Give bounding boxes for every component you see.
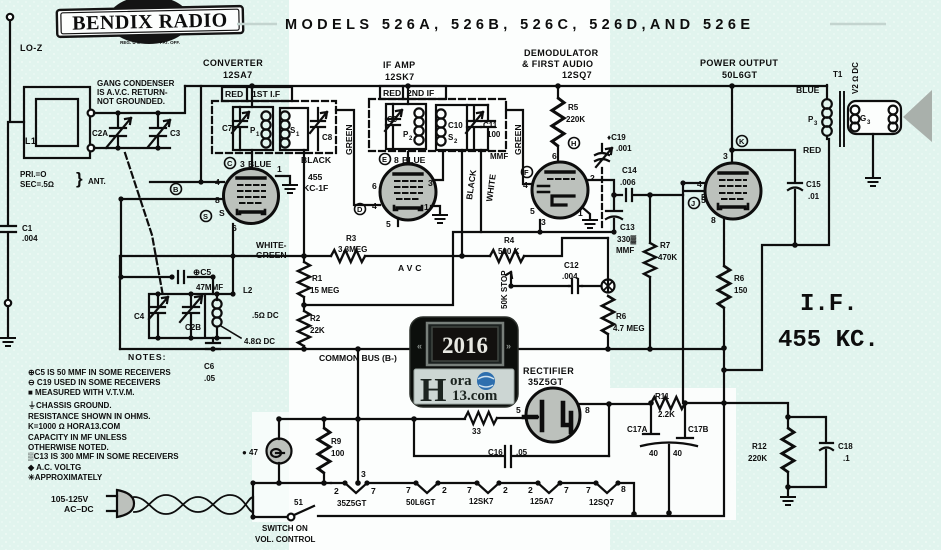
svg-text:C10: C10 [448,121,463,130]
svg-text:ora: ora [450,373,472,389]
svg-text:12SA7: 12SA7 [223,70,253,80]
capacitor C7 variable [232,107,249,150]
wire: S1 top to GREEN lead of 12SK7 [336,110,380,205]
svg-text:220K: 220K [748,454,767,463]
capacitor C17 common plate [641,443,697,514]
ground: C1 [7,306,9,336]
svg-text:RECTIFIER: RECTIFIER [523,366,574,376]
wire: 2nd IF primary feed [407,86,409,104]
svg-text:2.2K: 2.2K [658,410,675,419]
svg-text:C16: C16 [488,448,503,457]
transformer 2nd IF primary box [386,104,426,149]
node: circled B [171,184,182,195]
resistor R4 potentiometer [490,250,604,286]
plug AC [107,490,134,517]
svg-text:12SK7: 12SK7 [385,72,415,82]
wire: cord to switch [253,497,287,517]
svg-text:470K: 470K [658,253,677,262]
svg-text:4.7 MEG: 4.7 MEG [613,324,645,333]
wire: pilot leads [278,419,280,483]
svg-text:C9: C9 [387,115,398,124]
svg-text:C2A: C2A [92,129,108,138]
svg-text:RED: RED [803,145,821,155]
svg-text:R9: R9 [331,437,342,446]
svg-text:5: 5 [530,206,535,216]
resistor R1 [298,256,310,305]
node: circled D [355,204,366,215]
svg-text:50K STOP: 50K STOP [500,270,509,309]
resistor 33 [465,412,526,424]
heater link 3 [499,483,560,493]
svg-text:B: B [173,185,179,194]
svg-text:6: 6 [372,181,377,191]
svg-text:R7: R7 [660,241,671,250]
svg-text:7: 7 [371,486,376,496]
wire: heater supply line [279,418,465,420]
svg-text:1: 1 [424,202,429,212]
svg-text:500 K: 500 K [498,247,520,256]
inductor S2 [436,109,445,145]
resistor R9 [318,419,330,483]
wire: T1 RED staircase [724,139,829,370]
inductor G3 voice coil left [851,106,860,132]
node: circled J [689,198,700,209]
svg-text:3: 3 [723,151,728,161]
svg-text:AC–DC: AC–DC [64,504,94,514]
svg-text:15 MEG: 15 MEG [310,286,339,295]
inductor S1 [280,111,289,147]
svg-text:K=1000 Ω HORA13.COM: K=1000 Ω HORA13.COM [28,422,121,431]
capacitor C17A [643,403,659,434]
capacitor C5 [178,271,213,283]
capacitor C11 [481,105,495,150]
heater link 4 [560,483,618,493]
svg-text:35Z5GT: 35Z5GT [337,499,366,508]
svg-text:LO-Z: LO-Z [20,43,43,53]
svg-text:H: H [571,139,576,148]
node: circled S [201,211,212,222]
svg-text:T1: T1 [833,70,843,79]
svg-text:22K: 22K [310,326,325,335]
wire: left band down [119,256,121,349]
svg-text:105-125V: 105-125V [51,494,89,504]
wire: 1st IF primary feed [251,86,253,107]
svg-text:C17A: C17A [627,425,648,434]
svg-text:J: J [691,199,695,208]
transformer 1st IF primary box [233,107,273,150]
svg-text:455 KC.: 455 KC. [778,327,879,354]
svg-text:POWER OUTPUT: POWER OUTPUT [700,58,778,68]
wire: B+ line to R11 [685,402,724,404]
resistor R6 150 [718,266,730,308]
svg-text:◆ A.C. VOLTG: ◆ A.C. VOLTG [27,463,81,472]
inductor L2 [212,294,241,338]
svg-text:2: 2 [590,173,595,183]
svg-text:50L6GT: 50L6GT [406,498,435,507]
svg-text:C18: C18 [838,442,853,451]
svg-text:.004: .004 [22,234,38,243]
svg-text:2ND IF: 2ND IF [407,88,434,98]
capacitor C12 [569,279,582,293]
svg-text:MODELS 526A, 526B, 526C, 526D,: MODELS 526A, 526B, 526C, 526D,AND 526E [285,17,754,33]
node: circled F [522,167,533,178]
wire: common bus B- [120,348,724,350]
svg-text:BLACK: BLACK [301,155,332,165]
svg-text:5: 5 [386,219,391,229]
wire: bottom rail [318,403,724,516]
inductor P1 [261,111,270,147]
svg-text:6: 6 [232,223,237,233]
node: C1 terminal [5,300,11,306]
capacitor C4 variable [149,294,168,338]
svg-text:KC-1F: KC-1F [303,183,328,193]
svg-text:7: 7 [564,485,569,495]
svg-text:✳APPROXIMATELY: ✳APPROXIMATELY [28,473,103,482]
svg-text:C3: C3 [170,129,181,138]
svg-text:13.com: 13.com [452,388,498,404]
svg-text:.1: .1 [843,454,850,463]
resistor R12 [782,417,794,487]
svg-text:⊕C5 IS 50 MMF IN SOME RECEIVER: ⊕C5 IS 50 MMF IN SOME RECEIVERS [28,368,171,377]
svg-text:R3: R3 [346,234,357,243]
svg-text:SWITCH ON: SWITCH ON [262,524,308,533]
node: loop terminal lower [88,145,95,152]
svg-text:BLUE: BLUE [796,85,820,95]
svg-text:47MMF: 47MMF [196,283,223,292]
svg-text:K: K [739,137,745,146]
svg-text:125A7: 125A7 [530,497,554,506]
svg-text:4.8Ω DC: 4.8Ω DC [244,337,275,346]
tube 12SQ7 demodulator [532,162,588,218]
ground: R12 [787,487,789,496]
svg-text:R2: R2 [310,314,321,323]
svg-text:G: G [860,114,866,123]
svg-text:NOT GROUNDED.: NOT GROUNDED. [97,97,165,106]
svg-text:H: H [420,372,446,409]
wire: heater end drop [618,483,634,514]
svg-text:GREEN: GREEN [344,124,354,155]
svg-text:.001: .001 [616,144,632,153]
svg-text:C8: C8 [322,133,333,142]
capacitor C9 variable [385,104,402,149]
inductor P3 [822,99,832,139]
wire: 12SK7 pin5 stub [397,218,399,226]
svg-text:NOTES:: NOTES: [128,352,166,362]
transformer 2nd IF secondary box [436,105,467,150]
svg-text:ANT.: ANT. [88,177,106,186]
svg-text:D: D [357,205,363,214]
svg-text:7: 7 [467,485,472,495]
svg-text:5: 5 [701,192,706,202]
wire: line cord twisted pair [134,495,253,514]
wire: AVC bus [120,238,608,256]
svg-text:8: 8 [711,215,716,225]
svg-text:.01: .01 [808,192,820,201]
wire: C19 dashed drop [601,168,603,230]
heater link 1 [367,483,438,493]
wire: 12SQ7 cathode line [304,220,614,305]
heater link 2 [438,483,499,493]
svg-text:RED: RED [383,88,401,98]
speaker frame [848,101,901,134]
svg-text:7: 7 [586,485,591,495]
capacitor C18 [788,417,833,487]
svg-text:GANG CONDENSER: GANG CONDENSER [97,79,175,88]
svg-text:.05: .05 [204,374,216,383]
transformer T1 primary lead [826,85,828,99]
svg-text:«: « [417,341,422,351]
svg-text:REG. U S PAT. O: REG. U S PAT. OFF. [120,40,180,45]
capacitor C3 variable [148,113,170,148]
svg-text:C: C [227,159,233,168]
wire: converter pin6 to tank [232,224,234,294]
svg-text:150: 150 [734,286,748,295]
wire: rectifier output line [578,403,651,405]
capacitor C2B variable [180,294,202,338]
node: loop terminal upper [88,110,95,117]
node: circled H [569,138,580,149]
lamp pilot 47 [267,439,292,464]
svg-text:R12: R12 [752,442,767,451]
resistor R7 [644,195,656,349]
svg-text:5: 5 [516,405,521,415]
svg-text:»: » [506,341,511,351]
wire: converter pin1 to ground [276,176,290,183]
svg-text:PRI.=O: PRI.=O [20,170,46,179]
resistor R5 [552,86,564,162]
svg-text:12SQ7: 12SQ7 [589,498,614,507]
svg-text:VOL. CONTROL: VOL. CONTROL [255,535,316,544]
svg-text:12SK7: 12SK7 [469,497,494,506]
wire: antenna input vertical [10,21,24,122]
svg-text:8: 8 [585,405,590,415]
wire: 50L6GT cathode drop [723,219,725,403]
wire: converter plate BLUE lead [251,150,253,169]
svg-text:455: 455 [308,172,323,182]
wire: R12 C18 feed [724,403,788,417]
svg-text:■ MEASURED WITH V.T.V.M.: ■ MEASURED WITH V.T.V.M. [28,388,134,397]
svg-text:⏚CHASSIS GROUND.: ⏚CHASSIS GROUND. [28,401,112,410]
svg-text:C17B: C17B [688,425,709,434]
switch S1 [288,506,314,520]
svg-text:F: F [524,168,529,177]
svg-text:40: 40 [673,449,682,458]
resistor R11 [651,397,685,409]
svg-text:L2: L2 [243,286,253,295]
svg-text:.05: .05 [516,448,528,457]
wire: converter grid feed vertical [200,86,202,182]
resistor R6 4.7MEG [602,238,614,349]
wire: grid line 50L6GT [683,183,709,195]
svg-text:8: 8 [215,195,220,205]
svg-text:51: 51 [294,498,303,507]
svg-text:BLUE: BLUE [248,159,272,169]
svg-text:3.3MEG: 3.3MEG [338,245,367,254]
transformer 1st IF dashed box [212,101,336,153]
capacitor C17B [677,403,693,438]
svg-text:2: 2 [442,485,447,495]
svg-text:220K: 220K [566,115,585,124]
svg-text:WHITE-: WHITE- [256,240,287,250]
wire: grid return drop [682,195,684,403]
svg-text:R4: R4 [504,236,515,245]
svg-text:V2 Ω DC: V2 Ω DC [851,62,860,94]
svg-text:2: 2 [503,485,508,495]
wire: converter pin4 line [150,181,224,183]
svg-text:& FIRST AUDIO: & FIRST AUDIO [522,59,593,69]
transformer 2nd IF dashed box [369,99,506,151]
wire: B- drop to heater line [357,349,359,483]
transformer 1st IF secondary box [280,108,308,150]
svg-text:R11: R11 [655,392,670,401]
svg-text:BENDIX RADIO: BENDIX RADIO [72,9,228,34]
wire: gang bottom line [94,147,170,149]
svg-text:DEMODULATOR: DEMODULATOR [524,48,599,58]
svg-text:SEC=.5Ω: SEC=.5Ω [20,180,54,189]
svg-text:100: 100 [487,130,501,139]
svg-text:2016: 2016 [442,333,488,358]
svg-text:3: 3 [240,159,245,169]
wire: 12SK7 plate lead [407,152,409,164]
svg-text:1: 1 [277,164,282,174]
svg-text:GREEN: GREEN [513,124,523,155]
svg-text:1ST I.F: 1ST I.F [252,89,280,99]
svg-text:1: 1 [578,208,583,218]
wire: tank top lead [212,277,214,294]
svg-text:C15: C15 [806,180,821,189]
wire: B+ top bus [185,85,827,87]
svg-text:C6: C6 [204,362,215,371]
svg-text:L1: L1 [25,136,36,146]
label box RED 1ST IF [222,87,292,101]
svg-text:R5: R5 [568,103,579,112]
svg-text:S: S [219,208,225,218]
wire: speaker ground [872,134,874,176]
svg-text:40: 40 [649,449,658,458]
watermark hora13 [410,317,518,409]
wire: S1 secondary bottom BLACK lead [303,150,305,256]
svg-text:CAPACITY IN MF UNLESS: CAPACITY IN MF UNLESS [28,433,127,442]
svg-text:AVC: AVC [398,263,425,273]
svg-text:⊕C5: ⊕C5 [193,267,211,277]
svg-text:.006: .006 [620,178,636,187]
capacitor C6 [206,338,220,350]
wire: dashed gang link [125,153,163,296]
capacitor C1 [1,122,16,298]
capacitor C15 [732,150,802,245]
svg-text:COMMON BUS (B-): COMMON BUS (B-) [319,353,397,363]
svg-text:C4: C4 [134,312,145,321]
tube 50L6GT power output [705,163,761,219]
svg-text:R6: R6 [616,312,627,321]
svg-text:CONVERTER: CONVERTER [203,58,263,68]
svg-text:C12: C12 [564,261,579,270]
svg-text:100: 100 [331,449,345,458]
svg-text:4: 4 [215,177,220,187]
wire: WHITE lead [480,150,482,232]
wire: S2 bottom BLACK lead [461,150,463,256]
svg-text:RESISTANCE SHOWN IN OHMS.: RESISTANCE SHOWN IN OHMS. [28,412,151,421]
resistor R2 [298,305,310,349]
inductor P2 [414,108,423,144]
svg-text:33: 33 [472,427,481,436]
tube 12SK7 IF amp [380,164,436,220]
svg-text:}: } [76,169,83,188]
wire: 50L6GT plate lead [731,85,733,163]
svg-text:C2B: C2B [185,323,201,332]
svg-text:7: 7 [406,485,411,495]
svg-text:MMF: MMF [490,152,508,161]
tank circuit box C4 C2B [149,294,230,338]
node: circled C [225,158,236,169]
svg-text:12SQ7: 12SQ7 [562,70,592,80]
svg-text:♦C19: ♦C19 [607,133,626,142]
svg-text:E: E [382,155,387,164]
svg-text:R1: R1 [312,274,323,283]
transformer T1 core [840,92,844,146]
svg-text:RED: RED [225,89,243,99]
svg-text:8: 8 [621,484,626,494]
svg-text:2: 2 [528,485,533,495]
wire: cord to pilot node [252,483,254,512]
svg-text:C13: C13 [620,223,635,232]
wire: oscillator grid line to C5 [121,199,172,277]
svg-text:IS A.V.C. RETURN-: IS A.V.C. RETURN- [97,88,168,97]
heater 35Z5GT [331,483,367,493]
capacitor C2A variable [106,113,131,148]
wire: converter pin8 line [121,198,224,200]
svg-text:▒C13 IS 300 MMF IN SOME RECEIV: ▒C13 IS 300 MMF IN SOME RECEIVERS [28,452,179,461]
svg-text:R6: R6 [734,274,745,283]
svg-text:C11: C11 [483,121,498,130]
svg-text:330▓: 330▓ [617,235,636,245]
node: circled E [380,154,391,165]
wire: gang top line [94,86,185,113]
svg-text:2: 2 [334,486,339,496]
wire: 2nd IF top to 12SQ7 grid GREEN lead [506,110,534,184]
capacitor C16 [414,419,609,467]
svg-text:● 47: ● 47 [242,448,259,457]
node: circled X [602,280,615,293]
wire: 12SQ7 pin1 ground [583,208,590,218]
svg-text:BLUE: BLUE [402,155,426,165]
svg-text:I.F.: I.F. [800,291,858,318]
node: antenna terminal [7,14,13,20]
tube 35Z5GT rectifier [526,388,580,442]
svg-text:MMF: MMF [616,246,634,255]
svg-text:4: 4 [697,179,702,189]
node: circled K [737,136,748,147]
resistor R3 [331,250,365,262]
svg-text:50L6GT: 50L6GT [722,70,758,80]
svg-text:OTHERWISE NOTED.: OTHERWISE NOTED. [28,443,109,452]
svg-text:.004: .004 [562,272,578,281]
svg-text:IF AMP: IF AMP [383,60,416,70]
wire: pilot bottom line [253,482,331,484]
capacitor C19 trimmer [595,144,612,167]
svg-text:⊖ C19 USED IN SOME RECEIVERS: ⊖ C19 USED IN SOME RECEIVERS [28,378,161,387]
inductor G3 voice coil right [889,106,898,132]
wire: 12SK7 pin1 to ground [431,206,440,213]
svg-text:35Z5GT: 35Z5GT [528,377,564,387]
capacitor C14 [614,189,683,201]
svg-text:.5Ω DC: .5Ω DC [252,311,279,320]
svg-text:C7: C7 [222,124,233,133]
svg-text:3: 3 [541,217,546,227]
svg-text:C1: C1 [22,224,33,233]
wire: 12SQ7 plate lead to C14 node [588,180,614,195]
tube 12SA7 converter [224,169,279,224]
